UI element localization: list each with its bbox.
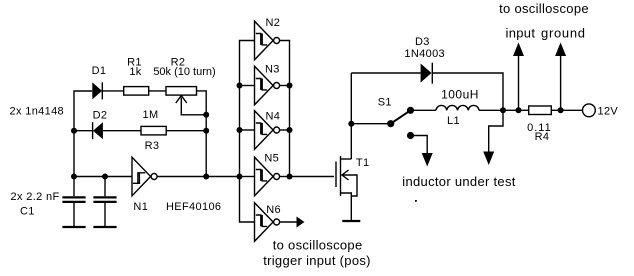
svg-text:N3: N3 [265,64,280,76]
switch S1 [387,107,414,139]
terminal 12V [583,104,596,117]
svg-text:N4: N4 [266,110,281,122]
wire D3 to right corner [432,73,503,110]
svg-text:1M: 1M [143,109,159,121]
R2 wiper arrow [176,96,206,115]
arrow N6 trigger out [297,217,305,228]
arrow scope ground [555,43,566,57]
capacitor C1b [93,177,116,227]
arrow scope input [513,43,524,57]
wire N1 output row [157,176,239,178]
svg-text:C1: C1 [20,206,35,218]
svg-text:L1: L1 [447,115,460,127]
stray period [415,200,417,202]
node S1 branch [348,121,354,127]
wire R1 to R2 [149,90,166,92]
node outbus N4 [287,127,293,133]
svg-text:12V: 12V [598,105,619,117]
wire R2 right to wiper node [197,91,207,115]
wire R4 to ground node [551,109,560,111]
node wiper junction [203,112,209,118]
ground T1 [342,220,360,222]
svg-text:inductor under test: inductor under test [402,174,515,189]
wire upper contact to L1 [411,109,437,111]
svg-text:HEF40106: HEF40106 [166,201,221,213]
node R3 right junction [203,128,209,134]
svg-text:2x 1n4148: 2x 1n4148 [10,105,65,117]
wire to R4 [519,109,529,111]
svg-text:50k (10 turn): 50k (10 turn) [153,66,215,78]
wire D3 top row [351,72,420,74]
svg-text:to oscilloscope: to oscilloscope [499,1,589,16]
node outbus gate [287,174,293,180]
wire input stub N4 [240,129,255,131]
resistor R1 [124,87,149,96]
wire left column [74,91,92,177]
svg-text:D1: D1 [92,65,107,77]
node outbus N3 [287,83,293,89]
wire D2 to R3 [103,130,141,132]
wire input stub N3 [240,85,255,87]
resistor R3 [141,126,166,134]
svg-text:input: input [506,26,536,41]
wire to 12V terminal [561,109,583,111]
node scope ground [558,107,564,113]
wire scope input arrow stem [518,56,520,111]
wire input bus [240,41,255,223]
node A L1 right [500,107,506,113]
wire N6 output [280,221,297,223]
wire drain up to S1 node [350,73,352,159]
node input bus junction [237,174,243,180]
transistor Q1 T1 mosfet [336,156,357,221]
inverter N3 [255,66,280,105]
wire left to D2 [74,130,92,132]
diode D2 [93,122,103,139]
svg-text:S1: S1 [378,97,392,109]
svg-text:N6: N6 [266,204,281,216]
wire wiper node down to R3 row [205,115,207,131]
resistor R4 [529,106,552,115]
ground C1a [62,226,85,228]
wire caps to N1 input [74,176,132,178]
svg-text:1k: 1k [129,66,141,78]
node left D2 row [71,128,77,134]
potentiometer R2 [166,87,197,96]
wire output stub N4 [280,129,290,131]
op-amp U1 inverter N1 [132,157,157,196]
svg-text:100uH: 100uH [441,88,479,102]
arrow DUT left [422,153,433,167]
diode D1 [92,82,102,99]
wire input stub N5 [240,176,255,178]
inverter N5 [255,157,280,196]
inductor L1 [436,105,479,110]
node scope input [516,107,522,113]
svg-text:1N4003: 1N4003 [404,48,445,60]
svg-text:T1: T1 [356,157,370,169]
ground C1b [93,226,116,228]
svg-text:D3: D3 [415,36,430,48]
wire R3 to right node [166,130,206,132]
wire node A to scope input node [503,109,519,111]
svg-text:trigger input (pos): trigger input (pos) [263,253,371,268]
node C1b top [102,174,108,180]
svg-text:N5: N5 [264,152,279,164]
wire lower contact to DUT arrow [411,136,428,154]
wire feedback down to output row [205,131,207,177]
svg-text:R3: R3 [145,140,160,152]
node feedback junction [203,174,209,180]
svg-text:D2: D2 [93,110,108,122]
inverter N6 [255,203,280,242]
wire output stub N5 [280,176,290,178]
svg-text:N2: N2 [266,17,281,29]
wire D1 to R1 [102,90,123,92]
wire to S1 pole [351,123,390,125]
wire output bus [280,41,290,177]
node bus N3 [237,83,243,89]
wire output stub N3 [280,85,290,87]
inverter N2 [255,21,280,60]
capacitor C1a [62,177,85,227]
svg-text:to oscilloscope: to oscilloscope [273,237,363,252]
wire DUT right jog [489,110,503,152]
svg-text:ground: ground [541,26,586,41]
wire scope ground arrow stem [560,56,562,111]
wire gate lead [290,176,335,178]
wire L1 to node A [479,109,503,111]
svg-text:R4: R4 [535,131,550,143]
diode D3 [421,63,433,84]
inverter N4 [255,111,280,150]
node bus N4 [237,127,243,133]
node C1a top [71,174,77,180]
svg-text:2x 2.2 nF: 2x 2.2 nF [11,191,60,203]
arrow DUT right [483,152,494,166]
svg-text:N1: N1 [133,201,148,213]
